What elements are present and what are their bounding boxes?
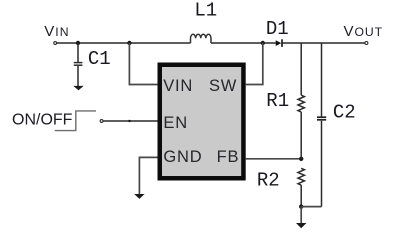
svg-text:R2: R2 — [257, 170, 280, 192]
node junction FB divider — [299, 157, 303, 161]
capacitor C2 — [317, 43, 326, 207]
capacitor C1 — [74, 43, 83, 86]
svg-text:FB: FB — [217, 148, 240, 166]
switch contact circle — [100, 120, 103, 123]
inductor L1 — [191, 34, 211, 43]
wire SW pin to top rail — [246, 43, 263, 85]
wire GND pin to ground — [139, 157, 157, 194]
switch step symbol ON/OFF — [55, 111, 96, 131]
svg-text:C2: C2 — [333, 102, 356, 124]
ground arrow below C1 — [73, 86, 83, 90]
ground arrow GND pin — [134, 194, 144, 199]
svg-text:VIN: VIN — [44, 23, 70, 40]
op IC U1 body — [158, 63, 246, 181]
svg-text:C1: C1 — [88, 48, 111, 70]
diode D1 — [276, 40, 282, 46]
resistor R2 — [298, 168, 304, 206]
svg-text:L1: L1 — [194, 0, 217, 22]
wire top rail VIN to inductor — [57, 42, 191, 44]
wire diode to VOUT terminal — [283, 42, 365, 44]
svg-text:SW: SW — [209, 77, 237, 95]
terminal VOUT port circle — [365, 42, 368, 45]
svg-text:VOUT: VOUT — [344, 23, 383, 40]
wire down to ground arrow — [300, 207, 302, 224]
ground arrow bottom — [296, 223, 306, 228]
node junction C1 on top rail — [76, 41, 80, 45]
svg-text:EN: EN — [163, 114, 188, 132]
svg-text:GND: GND — [163, 148, 202, 166]
svg-text:D1: D1 — [266, 18, 289, 40]
wire bottom rail to C2 — [301, 206, 321, 208]
wire inductor to diode — [211, 42, 276, 44]
svg-text:R1: R1 — [266, 90, 289, 112]
terminal VIN port circle — [54, 42, 57, 45]
node junction bottom ground — [299, 204, 303, 208]
node junction VIN-pin branch — [127, 41, 131, 45]
wire FB pin to divider node — [246, 158, 302, 160]
wire EN — [103, 120, 157, 122]
resistor R1 — [298, 43, 304, 159]
wire to VIN pin — [129, 43, 157, 85]
node junction SW branch — [261, 41, 265, 45]
svg-text:ON/OFF: ON/OFF — [12, 112, 73, 129]
node tick on EN wire — [128, 120, 130, 122]
svg-text:VIN: VIN — [163, 77, 193, 95]
